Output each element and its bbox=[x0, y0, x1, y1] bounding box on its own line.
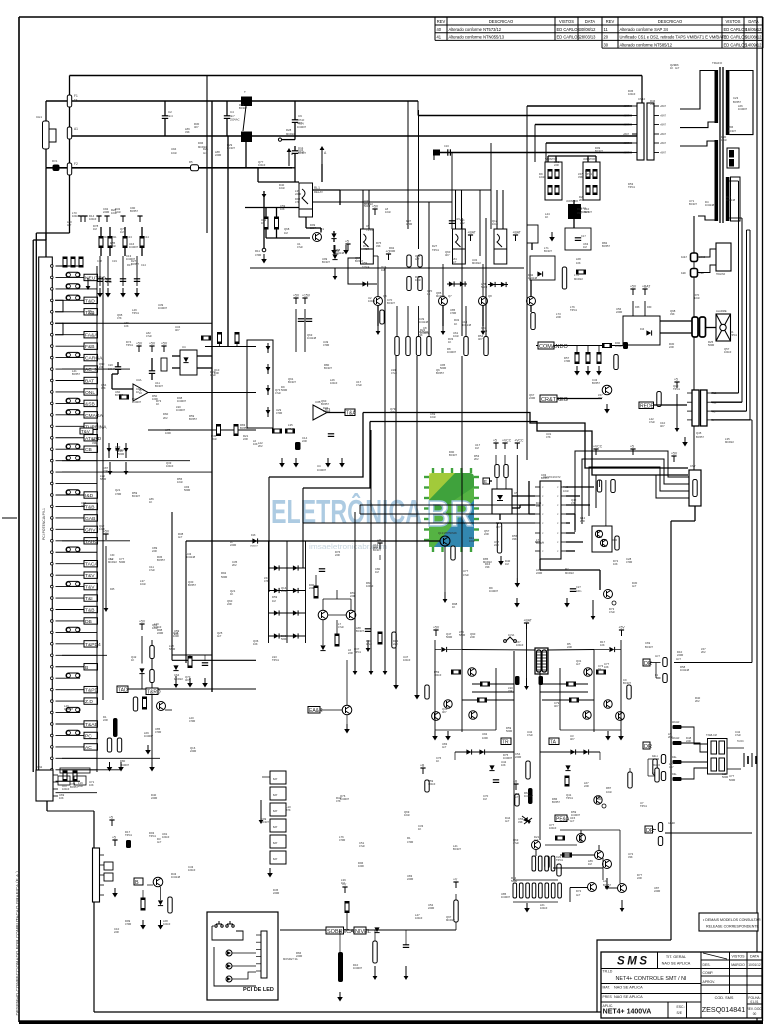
net arrow bbox=[376, 326, 381, 335]
svg-text:560R: 560R bbox=[722, 775, 728, 779]
capacitor C32 bbox=[107, 738, 111, 752]
varistor element bbox=[593, 170, 597, 179]
power stub bbox=[96, 216, 101, 222]
svg-text:470R: 470R bbox=[339, 838, 345, 842]
svg-text:DATA: DATA bbox=[748, 19, 759, 24]
svg-text:1N4007: 1N4007 bbox=[501, 895, 511, 899]
zener Z1 bbox=[489, 765, 494, 770]
wire bbox=[539, 790, 541, 840]
svg-text:U59: U59 bbox=[362, 261, 368, 265]
svg-text:100nF: 100nF bbox=[628, 92, 636, 96]
svg-text:BC337: BC337 bbox=[298, 151, 306, 155]
diode D18 bbox=[441, 647, 446, 652]
svg-text:DESCRICAO: DESCRICAO bbox=[489, 19, 513, 24]
wire to CT right bbox=[547, 649, 594, 652]
CN3 pin stub bbox=[100, 884, 105, 886]
svg-text:1N4007: 1N4007 bbox=[317, 468, 327, 472]
svg-text:01/08/12: 01/08/12 bbox=[746, 35, 763, 40]
watermark chip logo green body bbox=[429, 473, 474, 547]
wire bbox=[548, 155, 596, 157]
net flag NEUTRO bbox=[84, 274, 106, 281]
wire bbox=[359, 505, 361, 514]
wire bbox=[277, 868, 279, 872]
diode D10 bbox=[362, 281, 367, 286]
net flag &SB bbox=[84, 400, 98, 407]
faston connector pair box bbox=[727, 148, 739, 168]
svg-text:33K: 33K bbox=[628, 855, 633, 859]
wire bbox=[346, 715, 348, 724]
connector CN1 pin 47 bbox=[51, 791, 54, 794]
svg-text:BAT: BAT bbox=[273, 810, 278, 813]
connector CN1 pin 17 bbox=[51, 448, 54, 451]
wire grid row bbox=[269, 590, 306, 592]
transformer core line b bbox=[722, 67, 724, 223]
wire relay feed bus y202 bbox=[312, 201, 453, 203]
svg-text:220R: 220R bbox=[103, 210, 109, 214]
wire AC line L bus bbox=[70, 75, 643, 77]
svg-text:+5V: +5V bbox=[630, 285, 637, 289]
svg-text:MCR22: MCR22 bbox=[446, 918, 455, 922]
svg-text:R11: R11 bbox=[112, 235, 117, 239]
connector FAST dark pill bbox=[691, 253, 698, 262]
svg-text:2K2: 2K2 bbox=[163, 416, 168, 420]
capacitor C39 bbox=[515, 794, 519, 806]
wire bbox=[69, 175, 71, 233]
svg-text:47uF: 47uF bbox=[275, 391, 281, 395]
wire driver vertical bbox=[479, 190, 481, 256]
svg-text:BC557: BC557 bbox=[696, 435, 704, 439]
wire CN1 row 20 bbox=[56, 483, 98, 485]
terminal RL2 bbox=[661, 772, 665, 781]
wire bbox=[612, 539, 617, 541]
wire bbox=[226, 101, 228, 116]
wire drop x546 bbox=[545, 143, 547, 162]
svg-text:100nF: 100nF bbox=[163, 922, 171, 926]
wire bbox=[305, 217, 307, 228]
wire comb bus bbox=[513, 879, 558, 881]
svg-text:DATA: DATA bbox=[750, 955, 760, 959]
wire bbox=[535, 850, 537, 857]
resistor RR gate bbox=[627, 685, 631, 699]
power +B bbox=[420, 764, 426, 775]
ground bbox=[97, 288, 103, 298]
svg-text:+BAT: +BAT bbox=[623, 133, 629, 136]
module box K1 bbox=[530, 256, 555, 280]
ground bbox=[293, 458, 299, 468]
svg-text:BC337: BC337 bbox=[322, 260, 330, 264]
connector pin stub bbox=[654, 124, 659, 126]
svg-text:4n7: 4n7 bbox=[534, 838, 539, 842]
resistor pill stack b bbox=[418, 277, 422, 291]
wire bbox=[442, 264, 444, 297]
wire bbox=[455, 751, 514, 753]
svg-text:APLIC.: APLIC. bbox=[603, 1004, 614, 1008]
svg-text:22R: 22R bbox=[580, 519, 585, 523]
svg-text:22R: 22R bbox=[152, 549, 157, 553]
wire bbox=[435, 649, 441, 651]
faston terminal bbox=[464, 337, 468, 356]
wire right vertical 2 bbox=[741, 218, 743, 402]
net flag T&I bbox=[84, 595, 98, 602]
left border frame line bbox=[18, 17, 20, 1022]
wire CN1 long row bbox=[62, 769, 120, 771]
wire CN1 long row bbox=[62, 757, 160, 759]
connector CN1 pin 31 bbox=[51, 608, 54, 611]
svg-text:GAB: GAB bbox=[85, 516, 95, 522]
svg-text:220R: 220R bbox=[151, 796, 157, 800]
ground bbox=[120, 288, 126, 298]
wire bbox=[344, 899, 346, 901]
net flag T&AB bbox=[84, 721, 98, 728]
connector CN1 pin 44 bbox=[51, 757, 54, 760]
title block diagonal bbox=[703, 953, 727, 959]
svg-text:BC337: BC337 bbox=[387, 301, 395, 305]
inductor winding bbox=[241, 97, 252, 107]
resistor R6 bbox=[264, 217, 268, 229]
svg-text:BC337: BC337 bbox=[288, 380, 296, 384]
diode D11 bbox=[449, 281, 454, 286]
capacitor filter bbox=[120, 279, 126, 282]
wire bbox=[444, 580, 446, 592]
relay module box bbox=[453, 229, 466, 264]
svg-text:U94: U94 bbox=[171, 147, 177, 151]
wire bbox=[320, 709, 342, 711]
wire bbox=[232, 965, 256, 967]
diode D22 bbox=[570, 749, 575, 754]
wire bbox=[333, 231, 335, 233]
varistor element bbox=[586, 170, 590, 179]
svg-text:TIP41: TIP41 bbox=[556, 858, 563, 862]
zener diode bbox=[115, 443, 120, 458]
svg-text:1M: 1M bbox=[93, 227, 97, 231]
connector CN1 pin 14 bbox=[51, 414, 54, 417]
transistor Q7 bbox=[439, 297, 448, 306]
svg-text:PC: PC bbox=[85, 733, 92, 739]
svg-text:33K: 33K bbox=[92, 441, 97, 445]
svg-text:C14: C14 bbox=[144, 235, 149, 239]
svg-text:470R: 470R bbox=[115, 492, 121, 496]
circuit breaker CH1 bbox=[43, 121, 57, 149]
svg-text:BC337: BC337 bbox=[227, 146, 235, 150]
wire CN1 row 26 bbox=[56, 551, 98, 553]
svg-text:47uF: 47uF bbox=[356, 383, 362, 387]
optocoupler U5 box bbox=[492, 489, 512, 514]
ground bbox=[134, 288, 140, 298]
svg-text:NIVEL: NIVEL bbox=[355, 929, 371, 935]
svg-text:MCR22: MCR22 bbox=[472, 261, 481, 265]
capacitor dark L bbox=[515, 676, 520, 685]
transistor Q14 bbox=[318, 610, 328, 620]
wire center rail L bbox=[513, 651, 515, 790]
capacitor C41 bbox=[202, 663, 208, 666]
connector CN1 pin 8 bbox=[51, 345, 54, 348]
svg-text:100nF: 100nF bbox=[108, 368, 115, 371]
svg-text:1K: 1K bbox=[454, 322, 457, 326]
svg-text:100nF: 100nF bbox=[368, 299, 376, 303]
diode D19 bbox=[609, 647, 614, 652]
svg-text:DATA: DATA bbox=[585, 19, 596, 24]
wire bbox=[545, 844, 577, 846]
capacitor C26 bbox=[611, 480, 615, 493]
wire bbox=[529, 513, 535, 515]
wire drive vertical x417 bbox=[416, 356, 418, 690]
wire bbox=[197, 367, 212, 369]
wire bbox=[117, 370, 119, 374]
wire relay coil feeds bbox=[363, 190, 369, 229]
wire bbox=[553, 867, 603, 869]
resistor CN1 row 40 bbox=[66, 707, 80, 712]
svg-text:T&V: T&V bbox=[85, 585, 95, 591]
connector CN1 pin 15 bbox=[51, 425, 54, 428]
wire bbox=[461, 218, 463, 336]
wire bbox=[511, 740, 514, 742]
svg-text:R5: R5 bbox=[189, 160, 193, 164]
svg-text:00: 00 bbox=[753, 1012, 757, 1016]
svg-text:1M: 1M bbox=[588, 862, 592, 866]
wire bbox=[585, 842, 595, 852]
terminal TRAFO bbox=[655, 768, 659, 782]
svg-text:T&RD: T&RD bbox=[147, 689, 161, 695]
svg-text:47K: 47K bbox=[571, 501, 576, 505]
wire filtered AC bus bbox=[250, 267, 524, 269]
wire bbox=[655, 663, 657, 679]
wire bbox=[566, 486, 594, 488]
svg-text:1K: 1K bbox=[436, 759, 439, 763]
zener pair b bbox=[524, 818, 532, 824]
wire bbox=[69, 107, 71, 127]
terminal pill bbox=[653, 759, 657, 775]
transistor Q17 bbox=[584, 668, 592, 676]
wire bbox=[654, 404, 688, 406]
capacitor C25 bbox=[306, 319, 312, 322]
svg-text:10K: 10K bbox=[576, 261, 581, 265]
wire bbox=[295, 309, 297, 352]
svg-text:FA&T: FA&T bbox=[681, 256, 688, 259]
transistor Q9 bbox=[604, 590, 613, 599]
wire bbox=[557, 398, 602, 400]
svg-text:100nF: 100nF bbox=[724, 350, 732, 354]
svg-text:U5: U5 bbox=[514, 491, 518, 495]
resistor pulldown bbox=[575, 353, 579, 364]
svg-text:560R: 560R bbox=[184, 488, 190, 492]
resistor CN1 row 37 bbox=[66, 673, 80, 678]
wire CN1 row 1 bbox=[56, 265, 81, 267]
wire CN7 harness bbox=[589, 467, 689, 516]
svg-text:TIP41: TIP41 bbox=[354, 650, 361, 654]
svg-text:40: 40 bbox=[437, 27, 442, 32]
net flag GRV bbox=[84, 526, 98, 533]
wire CN1 row 16 bbox=[56, 437, 85, 439]
svg-text:47K: 47K bbox=[286, 808, 291, 812]
wire CN1 row 33 bbox=[56, 631, 98, 633]
svg-text:10K: 10K bbox=[600, 643, 605, 647]
wire long to right bbox=[674, 662, 752, 664]
svg-text:Q7: Q7 bbox=[448, 294, 452, 298]
connector pin stub bbox=[632, 142, 637, 144]
IC U10 pin left bbox=[535, 513, 540, 515]
power +5 bbox=[674, 378, 680, 389]
svg-text:33K: 33K bbox=[485, 565, 490, 569]
net flag F&B bbox=[84, 343, 98, 350]
wire mesh bbox=[542, 699, 594, 701]
net flag DB bbox=[84, 618, 98, 625]
wire CN1 row 12 bbox=[56, 391, 85, 393]
svg-text:MARCIO: MARCIO bbox=[731, 963, 745, 967]
svg-text:1N4007: 1N4007 bbox=[177, 399, 187, 403]
wire CN1 row 14 bbox=[56, 414, 85, 416]
svg-text:47uF: 47uF bbox=[735, 733, 741, 737]
wire vcc drop bbox=[516, 455, 518, 578]
wire right vertical to relay block bbox=[751, 420, 753, 663]
svg-text:ACT: ACT bbox=[676, 658, 681, 661]
wire CN1 long row bbox=[62, 368, 130, 370]
wire bbox=[322, 599, 324, 611]
svg-text:TIP41: TIP41 bbox=[125, 833, 132, 837]
wire bbox=[504, 455, 506, 464]
svg-text:BC557: BC557 bbox=[552, 800, 560, 804]
net flag T&D bbox=[84, 297, 98, 304]
wire bbox=[281, 139, 295, 141]
diode in K1 bbox=[537, 271, 542, 276]
wire bbox=[336, 620, 338, 634]
wire CN1 long row bbox=[62, 654, 107, 656]
svg-text:BC337: BC337 bbox=[544, 249, 552, 253]
svg-text:1K: 1K bbox=[418, 827, 421, 831]
svg-text:AC: AC bbox=[85, 745, 92, 751]
svg-text:4K7: 4K7 bbox=[194, 125, 199, 129]
svg-text:1N4148: 1N4148 bbox=[307, 336, 317, 340]
transistor Q15b bbox=[342, 705, 352, 715]
svg-text:470R: 470R bbox=[626, 560, 632, 564]
svg-text:100nF: 100nF bbox=[428, 782, 436, 786]
wire bbox=[266, 237, 310, 239]
box small b bbox=[58, 776, 70, 785]
svg-text:MCR22: MCR22 bbox=[286, 132, 295, 136]
ground bbox=[445, 731, 451, 741]
IC U10 pin left bbox=[535, 541, 540, 543]
svg-text:BC557: BC557 bbox=[157, 558, 165, 562]
resistor pulldown bbox=[597, 353, 601, 364]
svg-text:11: 11 bbox=[604, 27, 609, 32]
power +BAT bbox=[642, 285, 650, 296]
wire drop x303 bbox=[302, 488, 304, 568]
power +5 bbox=[345, 240, 351, 251]
gate resistor comb row bbox=[513, 883, 561, 898]
wire bbox=[547, 156, 549, 162]
svg-text:4n7: 4n7 bbox=[576, 662, 581, 666]
power +5V bbox=[293, 294, 300, 305]
wire bbox=[109, 248, 111, 257]
svg-text:47uF: 47uF bbox=[609, 610, 615, 614]
svg-text:4K7: 4K7 bbox=[185, 678, 190, 682]
svg-text:470R: 470R bbox=[481, 329, 487, 333]
connector CN1 pin 29 bbox=[51, 585, 54, 588]
svg-text:E: E bbox=[484, 479, 487, 484]
svg-text:+BAT: +BAT bbox=[513, 231, 521, 235]
wire bbox=[499, 514, 501, 520]
svg-text:RV1: RV1 bbox=[52, 159, 58, 163]
pin stub bbox=[707, 419, 711, 421]
wire bbox=[729, 217, 742, 219]
connector CN8 inside LED box bbox=[261, 931, 267, 978]
svg-text:DES.: DES. bbox=[703, 963, 711, 967]
fuse F2 bbox=[67, 127, 71, 139]
svg-text:R92: R92 bbox=[221, 571, 227, 575]
wire bbox=[373, 255, 378, 257]
svg-text:+B: +B bbox=[513, 780, 518, 784]
svg-text:560R: 560R bbox=[446, 635, 452, 639]
svg-text:BC337: BC337 bbox=[132, 494, 140, 498]
CN8 pin bbox=[256, 970, 261, 972]
svg-text:BC337: BC337 bbox=[453, 847, 461, 851]
wire bbox=[100, 248, 102, 257]
svg-text:Alterado conforme NT573/12: Alterado conforme NT573/12 bbox=[449, 27, 502, 32]
svg-text:BAT: BAT bbox=[273, 858, 278, 861]
svg-text:2K2: 2K2 bbox=[695, 699, 700, 703]
wire bbox=[653, 829, 657, 831]
svg-text:Unificado CS1 e DS2, retirado: Unificado CS1 e DS2, retirado TAPS VM/BA… bbox=[620, 35, 728, 40]
svg-text:220R: 220R bbox=[310, 226, 316, 230]
power +5V bbox=[433, 626, 440, 637]
wire bbox=[107, 256, 109, 286]
svg-text:470R: 470R bbox=[406, 222, 412, 226]
capacitor C17 bbox=[575, 238, 581, 241]
ground bbox=[585, 366, 591, 376]
svg-text:16/05/12: 16/05/12 bbox=[746, 27, 763, 32]
resistor input divider bbox=[108, 237, 112, 248]
connector pin stub bbox=[654, 115, 659, 117]
push button S2 bbox=[226, 921, 234, 927]
svg-text:1N4007: 1N4007 bbox=[447, 350, 457, 354]
svg-text:10nF: 10nF bbox=[99, 527, 105, 531]
svg-text:BC337: BC337 bbox=[584, 210, 592, 214]
svg-text:10K: 10K bbox=[604, 665, 609, 669]
CN8 pin bbox=[256, 963, 261, 965]
wire bbox=[566, 550, 575, 552]
svg-text:10nF: 10nF bbox=[111, 211, 117, 215]
zener diode ladder bbox=[266, 407, 271, 417]
ground bbox=[149, 762, 155, 772]
wire bbox=[304, 309, 306, 352]
CN8 pin bbox=[256, 948, 261, 950]
svg-text:B: B bbox=[135, 880, 139, 886]
wire bbox=[111, 374, 113, 389]
svg-text:22R: 22R bbox=[335, 553, 340, 557]
svg-text:TX&B-CM: TX&B-CM bbox=[706, 734, 717, 737]
svg-text:BC337: BC337 bbox=[261, 820, 269, 824]
wire to relay block bbox=[682, 743, 708, 752]
transistor Q24 bbox=[153, 877, 163, 887]
net flag T&B bbox=[84, 606, 98, 613]
diode D33 bbox=[158, 900, 163, 905]
net flag T&B bbox=[84, 503, 98, 510]
wire bbox=[164, 119, 166, 136]
svg-text:1M: 1M bbox=[505, 562, 509, 566]
svg-text:MCR22: MCR22 bbox=[725, 440, 734, 444]
right border frame double line outer bbox=[762, 17, 764, 1021]
wire bbox=[306, 227, 321, 229]
svg-text:33K: 33K bbox=[185, 130, 190, 134]
wire CN1 row 2 bbox=[56, 276, 85, 278]
wire bbox=[45, 168, 47, 240]
svg-text:1K: 1K bbox=[149, 500, 152, 504]
svg-text:47uF: 47uF bbox=[463, 573, 469, 577]
svg-text:47uF: 47uF bbox=[649, 420, 655, 424]
aux connector box right bbox=[716, 243, 731, 271]
svg-text:R28: R28 bbox=[286, 128, 292, 132]
svg-text:22R: 22R bbox=[103, 469, 108, 473]
connector CN1 pin 11 bbox=[51, 379, 54, 382]
